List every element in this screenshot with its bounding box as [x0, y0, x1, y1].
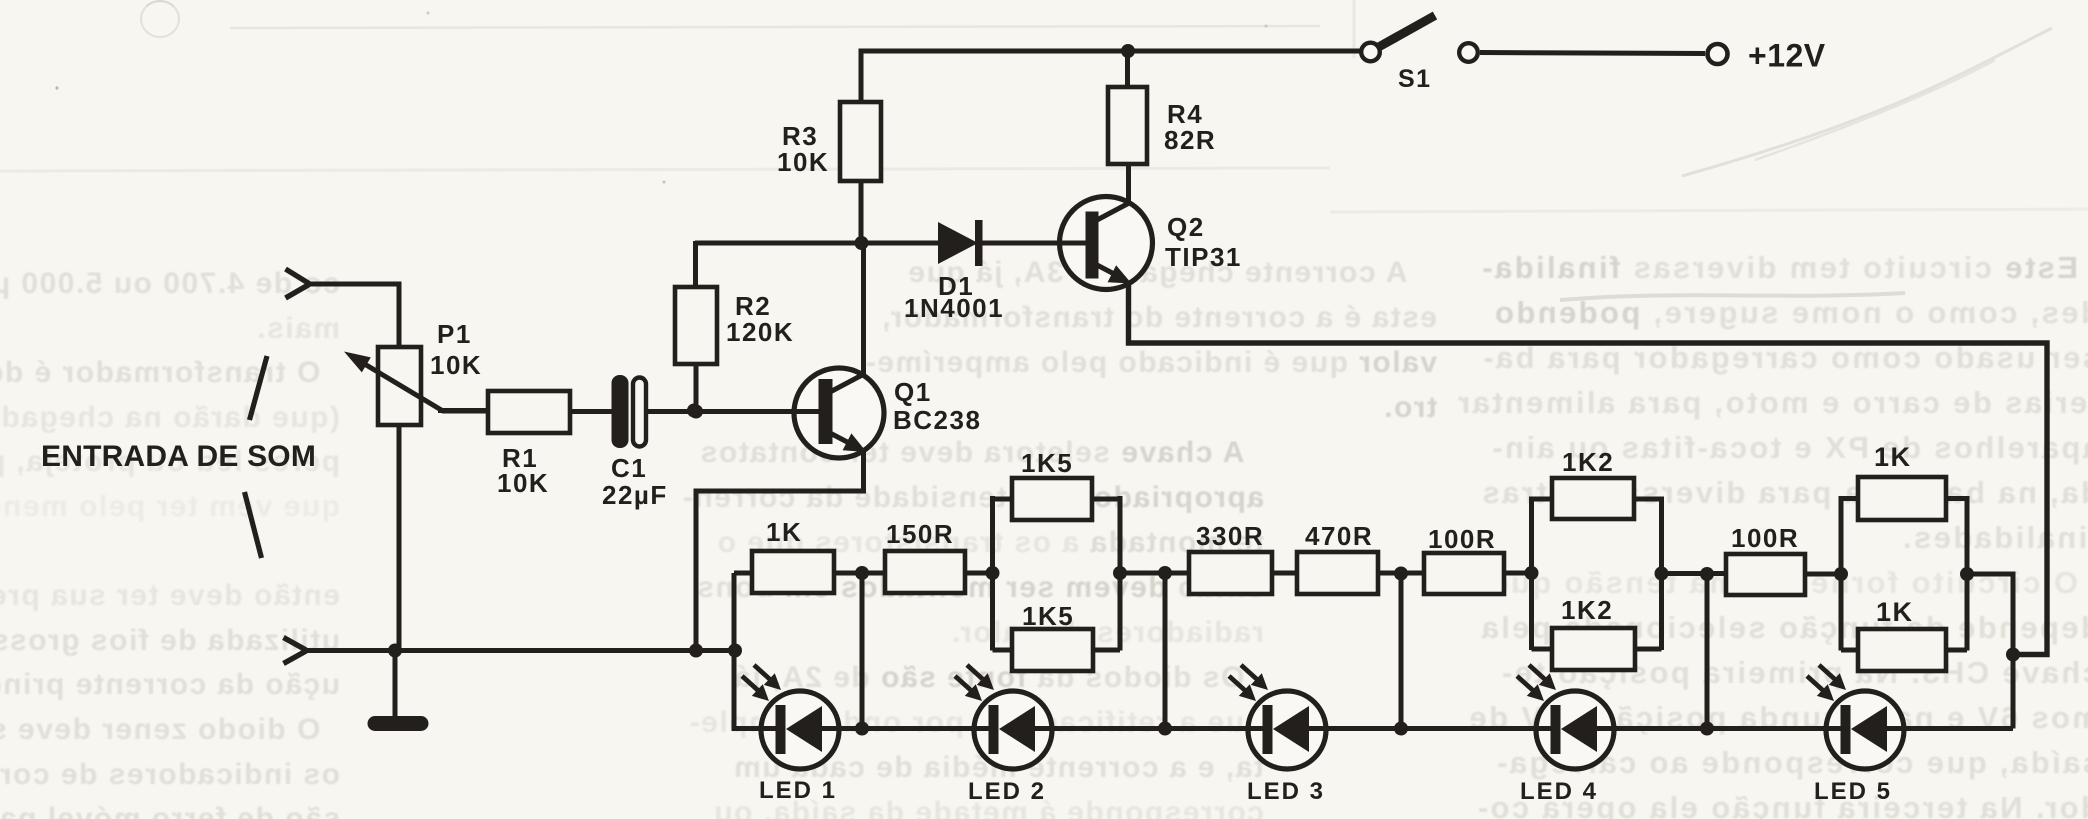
LED 3 — [1248, 691, 1326, 769]
switch S1 lever — [1380, 16, 1436, 47]
junction junction ground rail / LED chain — [728, 644, 742, 658]
node D1/R3/R2 horizontal — [695, 241, 940, 246]
junction junction 1K2 left bar — [1525, 566, 1539, 580]
diode D1 1N4001 — [938, 222, 978, 264]
LED 5 — [1826, 691, 1904, 769]
resistor 150R — [885, 551, 965, 593]
wire ground stem — [393, 650, 398, 717]
wire Q1 emitter return loop — [696, 448, 864, 650]
resistor 1K2 top — [1552, 478, 1634, 519]
wire Q1 base line — [644, 409, 819, 414]
svg-text:1K5: 1K5 — [1022, 601, 1074, 631]
resistor R2 120K — [675, 287, 717, 364]
wire tap node C to LED line — [1399, 574, 1404, 729]
resistor 470R — [1297, 552, 1378, 594]
junction junction P1 bottom / ground rail — [388, 644, 402, 658]
svg-text:10K: 10K — [497, 468, 549, 498]
ground rail — [305, 648, 736, 653]
input terminal bottom chevron — [284, 638, 307, 651]
svg-text:82R: 82R — [1164, 125, 1216, 155]
parallel pair bars 1K5 — [990, 496, 995, 651]
junction junction LED line node B — [1158, 722, 1172, 736]
svg-text:1N4001: 1N4001 — [904, 293, 1004, 323]
wire tap node D to LED line — [1705, 574, 1710, 729]
svg-text:100R: 100R — [1731, 523, 1799, 553]
svg-text:1K: 1K — [1876, 597, 1914, 627]
junction junction 1K pair left bar — [1834, 567, 1848, 581]
resistor 1K5 bottom — [1012, 629, 1093, 671]
wire 330R to 470R — [1270, 571, 1299, 576]
svg-text:LED 1: LED 1 — [759, 777, 837, 804]
svg-text:150R: 150R — [886, 519, 954, 549]
svg-text:1K: 1K — [766, 517, 802, 547]
junction junction LED line node C — [1394, 722, 1408, 736]
svg-text:LED 2: LED 2 — [968, 778, 1046, 805]
junction junction 1K5 right bar — [1113, 566, 1127, 580]
junction node D1 anode / R3 / Q1 collector — [855, 236, 869, 250]
callout slash bottom — [245, 492, 262, 558]
LED bottom chain wire — [734, 573, 2013, 729]
wire 1K to 150R — [832, 571, 887, 576]
svg-text:BC238: BC238 — [893, 405, 981, 435]
ground symbol — [375, 716, 421, 731]
parallel pair bars 1K right — [1839, 496, 1844, 651]
junction junction 1K pair right bar — [1960, 567, 1974, 581]
junction junction Q1 emitter / ground rail — [689, 644, 703, 658]
svg-text:330R: 330R — [1196, 521, 1264, 551]
resistor 1K (first) — [752, 551, 834, 593]
wire 100R to 1K2 pair — [1501, 571, 1533, 576]
resistor 100R (first) — [1424, 553, 1504, 594]
resistor 1K5 top — [1012, 478, 1092, 520]
svg-text:+12V: +12V — [1748, 38, 1826, 74]
scan artifacts — [140, 0, 180, 38]
wire tap node B to LED line — [1163, 573, 1168, 729]
potentiometer P1 body — [378, 347, 421, 425]
svg-text:C1: C1 — [611, 453, 647, 483]
svg-text:1K: 1K — [1874, 442, 1912, 472]
svg-text:22µF: 22µF — [602, 480, 668, 510]
svg-text:470R: 470R — [1305, 521, 1373, 551]
junction junction 1K2 right bar — [1655, 567, 1669, 581]
svg-text:S1: S1 — [1398, 65, 1432, 93]
LED 1 — [761, 691, 839, 769]
resistor 330R — [1189, 552, 1272, 594]
resistor R3 10K — [840, 102, 881, 181]
junction junction base node — [687, 404, 701, 418]
LED 2 — [974, 691, 1052, 769]
wire S1 to +12V terminal — [1480, 53, 1705, 54]
capacitor C1 22µF — [612, 375, 629, 448]
junction node B chain — [1158, 566, 1172, 580]
wire 470R to 100R — [1376, 571, 1426, 576]
LED 4 — [1536, 691, 1614, 769]
svg-text:1K5: 1K5 — [1021, 448, 1073, 478]
svg-text:Q2: Q2 — [1167, 212, 1205, 242]
svg-text:Q1: Q1 — [894, 377, 932, 407]
svg-text:LED 5: LED 5 — [1814, 778, 1892, 805]
potentiometer P1 wiper arrow — [352, 357, 492, 412]
svg-text:1K2: 1K2 — [1562, 447, 1614, 477]
wire second 100R to 1K pair — [1803, 572, 1843, 577]
callout slash top — [250, 356, 268, 420]
svg-text:LED 3: LED 3 — [1247, 778, 1325, 805]
resistor R1 10K — [488, 391, 570, 433]
wire right-end jog to LED chain — [1967, 574, 2013, 729]
junction node A chain 1K/150R — [855, 566, 869, 580]
scan streaks — [230, 26, 1320, 28]
faint show-through text from reverse page (mirrored) — [737, 250, 1437, 430]
resistor R4 82R — [1108, 87, 1147, 164]
wire D1 cathode to Q2 base — [980, 241, 1086, 246]
svg-text:120K: 120K — [726, 317, 794, 347]
resistor 100R (second) — [1726, 554, 1805, 595]
wire R2 top vertical — [693, 241, 698, 289]
svg-text:TIP31: TIP31 — [1165, 242, 1242, 272]
wire P1 wiper to R1 — [438, 408, 490, 413]
wire Q1 collector vertical — [861, 243, 866, 378]
wire R2 bottom to base node — [694, 362, 699, 411]
resistor 1K top (right pair) — [1858, 477, 1946, 520]
wire 150R to 1K5 pair — [963, 571, 994, 576]
transistor Q1 BC238 — [794, 368, 884, 458]
switch S1 pole circle — [1361, 43, 1380, 62]
wire R4 top — [1125, 51, 1130, 87]
junction junction supply rail / R4 — [1121, 44, 1135, 58]
wire input top to P1 — [308, 284, 399, 348]
input terminal top chevron — [286, 269, 310, 284]
transistor Q2 TIP31 — [1060, 197, 1153, 290]
junction junction LED line node A — [855, 722, 869, 736]
junction node C chain 470R/100R — [1394, 567, 1408, 581]
svg-text:ENTRADA DE SOM: ENTRADA DE SOM — [41, 440, 316, 473]
svg-text:10K: 10K — [777, 147, 829, 177]
wire 1K2 pair to second 100R — [1660, 571, 1728, 576]
wire top supply rail — [861, 51, 1360, 245]
parallel pair bars 1K2 — [1529, 497, 1534, 651]
junction junction emitter return / LED chain end — [2006, 648, 2020, 662]
svg-text:P1: P1 — [437, 319, 472, 349]
junction junction 1K5 left bar — [986, 566, 1000, 580]
wire P1 bottom — [397, 424, 402, 650]
svg-text:100R: 100R — [1428, 524, 1496, 554]
wire chain start to 1K — [734, 571, 754, 576]
wire R1 to C1 — [568, 409, 614, 414]
switch S1 throw circle — [1459, 43, 1478, 62]
resistor 1K bottom (right pair) — [1858, 629, 1946, 671]
junction junction LED line node D — [1700, 722, 1714, 736]
resistor 1K2 bottom — [1552, 628, 1635, 670]
svg-text:10K: 10K — [430, 350, 482, 380]
+12V terminal circle — [1708, 44, 1728, 64]
wire 1K5 pair to 330R — [1118, 571, 1191, 576]
svg-text:LED 4: LED 4 — [1520, 778, 1598, 805]
junction junction R2 / Q1 base — [689, 405, 703, 419]
wire Q2 collector vertical — [1126, 162, 1131, 204]
svg-text:1K2: 1K2 — [1561, 595, 1613, 625]
wire Q2 emitter long run to right side — [1129, 282, 2048, 655]
junction node D chain — [1700, 567, 1714, 581]
wire tap node A to LED line — [860, 573, 865, 729]
